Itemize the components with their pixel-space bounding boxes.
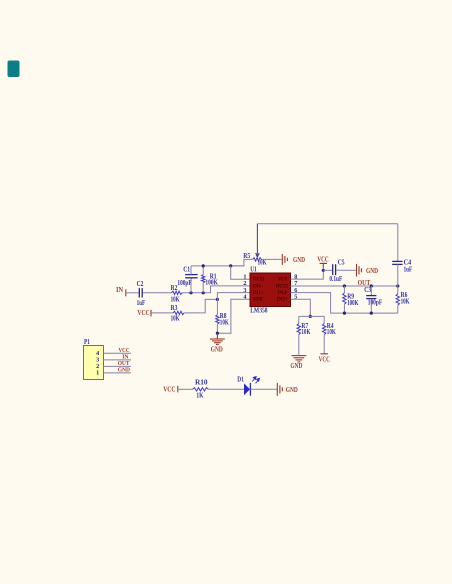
node feedback junction bbox=[396, 284, 399, 287]
wire to C5 bbox=[323, 269, 332, 271]
svg-text:VCC: VCC bbox=[319, 356, 330, 364]
ground (R7) bbox=[292, 356, 307, 362]
svg-text:GND: GND bbox=[211, 346, 223, 354]
svg-text:GND: GND bbox=[293, 256, 305, 264]
wire top node rail bbox=[191, 265, 244, 267]
wire R9 top lead bbox=[343, 286, 345, 293]
wire IN to C2 bbox=[126, 292, 138, 294]
svg-text:P1: P1 bbox=[84, 338, 90, 346]
svg-text:U1: U1 bbox=[250, 266, 257, 274]
wiper arrow bbox=[255, 253, 260, 258]
wire R6 bottom lead bbox=[397, 305, 399, 313]
wire C3 top lead bbox=[370, 286, 372, 295]
svg-text:100pF: 100pF bbox=[368, 298, 382, 306]
wire pin1 bbox=[231, 266, 250, 279]
wire C4 bottom lead bbox=[397, 264, 399, 286]
svg-text:IN: IN bbox=[116, 286, 123, 294]
svg-text:0.1uF: 0.1uF bbox=[329, 275, 342, 283]
wire pin5 bbox=[291, 299, 311, 316]
wire divider rail bbox=[299, 315, 324, 317]
port VCC tick bbox=[150, 310, 152, 317]
wire C1 top lead bbox=[190, 266, 192, 275]
wire R7 bottom lead bbox=[298, 335, 300, 355]
wire R1 top lead bbox=[202, 266, 204, 275]
resistor R5 bbox=[253, 258, 262, 261]
svg-text:10K: 10K bbox=[171, 295, 180, 303]
svg-text:VCC: VCC bbox=[163, 385, 175, 393]
svg-text:10K: 10K bbox=[220, 319, 229, 327]
power port VCC (R4) bbox=[321, 353, 328, 355]
node R8 gnd junction bbox=[216, 332, 219, 335]
svg-text:10K: 10K bbox=[327, 328, 336, 336]
svg-text:1uF: 1uF bbox=[404, 265, 413, 273]
node C3 bottom junction bbox=[370, 312, 373, 315]
capacitor C2 bbox=[139, 288, 142, 297]
svg-text:10K: 10K bbox=[171, 315, 180, 323]
op-amp U1 LM358 body bbox=[250, 273, 291, 307]
svg-text:10K: 10K bbox=[301, 328, 310, 336]
LED arrows bbox=[252, 377, 259, 384]
power port VCC (pin8) bbox=[320, 262, 327, 264]
wire R4 top lead bbox=[323, 316, 325, 323]
wire P1 pin3 bbox=[104, 359, 132, 361]
svg-text:GND: GND bbox=[118, 366, 131, 373]
pin numbers bbox=[243, 273, 297, 300]
resistor R3 bbox=[173, 311, 184, 314]
svg-text:D1: D1 bbox=[237, 375, 244, 383]
wire R8 top lead bbox=[216, 299, 218, 314]
wire C2 to R2 bbox=[143, 292, 172, 294]
svg-text:OUT1: OUT1 bbox=[253, 277, 265, 283]
svg-text:IN1+: IN1+ bbox=[253, 290, 264, 296]
capacitor C4 bbox=[392, 261, 402, 264]
svg-text:R3: R3 bbox=[171, 304, 178, 312]
wire pin4 bbox=[217, 299, 250, 333]
svg-text:4: 4 bbox=[243, 294, 246, 301]
svg-text:C5: C5 bbox=[338, 258, 345, 266]
svg-text:100pF: 100pF bbox=[177, 279, 191, 287]
LED D1 bbox=[244, 383, 250, 395]
U1 inner pin names bbox=[253, 277, 288, 303]
capacitor C5 bbox=[333, 264, 336, 275]
wire pin8 to VCC bbox=[291, 267, 324, 279]
ground (R8/pin4) bbox=[216, 333, 218, 338]
resistor R10 bbox=[193, 388, 209, 391]
wire VCC to R10 bbox=[178, 388, 192, 390]
wire D1 to gnd bbox=[250, 388, 277, 390]
svg-text:10K: 10K bbox=[401, 297, 410, 305]
node pin1 junction bbox=[229, 264, 232, 267]
wire R9 bottom lead bbox=[343, 304, 345, 313]
node R9 bottom junction bbox=[343, 312, 346, 315]
node R9 top junction bbox=[343, 284, 346, 287]
svg-text:C1: C1 bbox=[183, 265, 190, 273]
wire R6 top lead bbox=[397, 286, 399, 294]
wire node to C1 top bbox=[190, 278, 192, 293]
wire VCC to R3 bbox=[152, 312, 173, 314]
ground (C5) bbox=[357, 264, 362, 277]
svg-text:C2: C2 bbox=[137, 280, 144, 288]
wire C3 bottom lead bbox=[370, 299, 372, 314]
wire pin3 bbox=[217, 293, 250, 300]
svg-text:R5: R5 bbox=[243, 252, 250, 260]
logo square bbox=[8, 61, 20, 78]
wire pin7 out row bbox=[291, 285, 398, 287]
resistor R2 bbox=[172, 291, 183, 294]
svg-text:C3: C3 bbox=[364, 286, 371, 294]
capacitor C1 bbox=[185, 275, 197, 278]
svg-text:GND: GND bbox=[366, 267, 378, 275]
svg-text:IN2-: IN2- bbox=[278, 290, 288, 296]
wire R4 bottom lead bbox=[323, 335, 325, 354]
svg-text:LM358: LM358 bbox=[250, 306, 268, 314]
wire pin1 to R5 bbox=[231, 259, 253, 266]
svg-text:1K: 1K bbox=[196, 391, 203, 399]
resistor R7 bbox=[298, 316, 300, 323]
svg-text:100K: 100K bbox=[347, 299, 359, 307]
svg-text:1uF: 1uF bbox=[137, 299, 146, 307]
wire bottom rail + pin6 bbox=[291, 293, 398, 314]
wire P1 pin4 bbox=[104, 352, 132, 354]
wire P1 pin2 bbox=[104, 365, 132, 367]
svg-text:OUT2: OUT2 bbox=[276, 283, 288, 289]
port IN tick bbox=[125, 289, 127, 296]
wire R2 to pin2 jog bbox=[182, 286, 250, 293]
svg-text:VEE: VEE bbox=[253, 297, 263, 303]
svg-text:VCC: VCC bbox=[137, 309, 149, 317]
node R1 top junction bbox=[202, 264, 205, 267]
node C3 top junction bbox=[370, 284, 373, 287]
wire R1 bottom lead bbox=[202, 283, 204, 293]
wire C5 to gnd bbox=[336, 269, 356, 271]
node C5 junction bbox=[322, 269, 325, 272]
svg-text:VCC: VCC bbox=[278, 277, 288, 283]
svg-text:100K: 100K bbox=[205, 279, 218, 287]
svg-text:R10: R10 bbox=[195, 378, 208, 386]
svg-text:VCC: VCC bbox=[317, 256, 328, 264]
node C1 bottom junction bbox=[189, 291, 192, 294]
node R1 bottom junction bbox=[202, 291, 205, 294]
svg-text:IN1-: IN1- bbox=[253, 283, 263, 289]
wire R8 bottom lead bbox=[216, 324, 218, 333]
svg-text:GND: GND bbox=[286, 386, 298, 394]
wire R10 to D1 bbox=[208, 388, 244, 390]
wire C4 top lead bbox=[397, 224, 399, 261]
ground (R5) bbox=[282, 254, 287, 265]
ground (D1) bbox=[277, 383, 282, 396]
port VCC tick (LED) bbox=[177, 386, 179, 393]
wire P1 pin1 bbox=[104, 372, 132, 374]
wire R3 to node bbox=[184, 299, 217, 313]
wire wiper drop bbox=[256, 224, 258, 253]
svg-text:GND: GND bbox=[290, 362, 302, 370]
node divider junction bbox=[309, 315, 312, 318]
wire R5 to gnd bbox=[262, 258, 282, 260]
svg-text:1: 1 bbox=[96, 370, 99, 377]
node pin3 bias junction bbox=[216, 298, 219, 301]
svg-text:IN2+: IN2+ bbox=[277, 297, 288, 303]
wire top feedback rail bbox=[257, 223, 397, 225]
